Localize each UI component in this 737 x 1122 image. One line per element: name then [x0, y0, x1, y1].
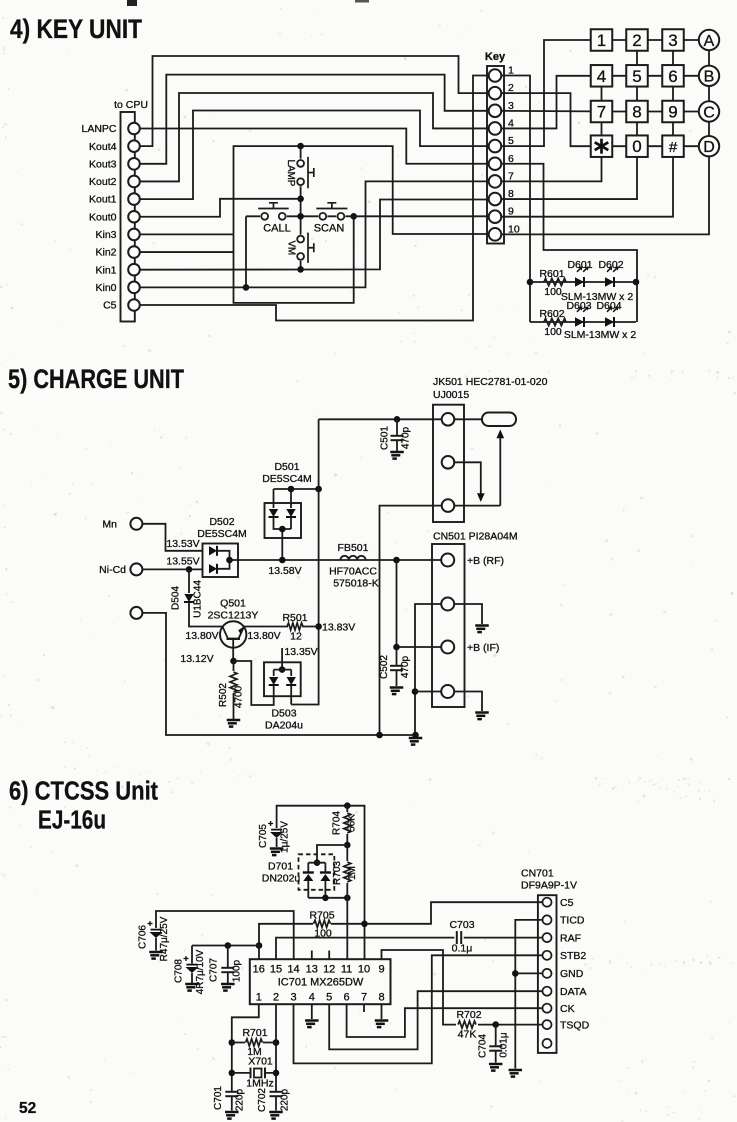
resistor R602 [544, 318, 566, 325]
terminal battery minus [130, 607, 142, 619]
svg-text:13.80V: 13.80V [247, 630, 280, 642]
diode module D503 (box) [264, 662, 301, 696]
svg-text:1: 1 [597, 31, 606, 50]
svg-text:D502: D502 [209, 516, 234, 528]
svg-text:D604: D604 [596, 300, 621, 312]
wire IC pin11 riser [346, 898, 348, 959]
junction C502 top [393, 557, 400, 564]
key button 4 [591, 65, 613, 87]
svg-text:DE5SC4M: DE5SC4M [197, 528, 247, 540]
svg-text:R602: R602 [539, 308, 564, 320]
svg-text:10: 10 [358, 964, 370, 976]
svg-text:GND: GND [560, 968, 584, 980]
diode D603 [575, 317, 584, 326]
svg-text:100: 100 [544, 286, 562, 298]
wire Ni-Cd to D502 [142, 568, 202, 570]
wire Key pin5 to 1 row [501, 40, 590, 146]
junction CALL-Kin0 [243, 284, 250, 291]
pin TICD of CN701 [543, 915, 552, 924]
diode module D502 (box) [203, 544, 239, 578]
wire Kin2 stub [140, 251, 233, 253]
junction R703 bottom [344, 895, 351, 902]
wire CN501 pin4 right ground [454, 692, 482, 712]
wire Kout0 to LAMP-CALL node [140, 199, 300, 217]
ground below C707 [221, 984, 235, 991]
junction LED row1 right [633, 279, 640, 286]
capacitor C704 [495, 1025, 497, 1047]
diode D601 [575, 277, 584, 286]
svg-text:DE5SC4M: DE5SC4M [262, 473, 312, 485]
wire Kout3 to Key pin3 [140, 75, 488, 164]
junction D503 top [279, 666, 286, 673]
svg-text:6: 6 [344, 992, 350, 1004]
svg-text:0.01μ: 0.01μ [499, 1032, 510, 1057]
diode module D501 (box) [265, 503, 302, 538]
wire 13.58V line to CN501 pin1 [230, 559, 442, 561]
svg-text:Kout3: Kout3 [89, 158, 117, 170]
junction C704 tap [492, 1021, 499, 1028]
key button 5 [626, 65, 648, 87]
svg-text:100p: 100p [232, 959, 243, 982]
junction GND row [512, 970, 519, 977]
pin 3 of JK501 [442, 499, 455, 512]
svg-text:Kin3: Kin3 [95, 229, 116, 241]
wire D503 top link [274, 669, 292, 671]
wire Key pin8 to 0 column [501, 157, 637, 199]
wire IC pin15 to RAF with C703 [276, 938, 543, 960]
pin RAF of CN701 [543, 933, 552, 942]
ground below C704 [489, 1064, 503, 1071]
svg-text:4) KEY UNIT: 4) KEY UNIT [10, 14, 142, 44]
wire Kout1 to Key pin5 [140, 111, 488, 200]
svg-text:Kin1: Kin1 [95, 264, 116, 276]
junction X701 right [273, 1070, 280, 1077]
junction D501 to 13.58V line [279, 557, 286, 564]
junction R701 right [273, 1039, 280, 1046]
svg-text:C: C [703, 104, 715, 121]
wire Key pin4 to 4 row [501, 76, 590, 129]
ground IC pin4 [305, 1021, 319, 1028]
svg-text:13.53V: 13.53V [166, 538, 199, 550]
svg-text:UJ0015: UJ0015 [433, 389, 469, 401]
wire CN501 pin2 right ground [454, 604, 482, 624]
svg-text:C705: C705 [258, 824, 269, 848]
key button B [699, 66, 719, 86]
wire button block top rail [234, 146, 489, 234]
switch VM [297, 236, 304, 243]
wire IC pin8 ground [381, 1004, 383, 1019]
svg-text:4R7μ/10V: 4R7μ/10V [195, 949, 206, 994]
svg-text:R47μ/25V: R47μ/25V [159, 916, 170, 961]
svg-text:7: 7 [597, 103, 606, 122]
pin 2 of Key connector [489, 87, 502, 100]
svg-text:13: 13 [306, 964, 318, 976]
wire IC pin4 ground [311, 1004, 313, 1019]
pin 5 of Key connector [489, 140, 502, 153]
ferrite bead FB501 [340, 556, 365, 560]
svg-text:DN202u: DN202u [262, 873, 301, 885]
wire CTCSS top supply line [277, 806, 365, 960]
diode D501b [290, 489, 292, 508]
junction D502 output [226, 557, 233, 564]
wire CN501 pins 2-4 ground link [415, 604, 441, 735]
junction pin3 riser bottom [376, 732, 383, 739]
wire Key pin2 to star row [501, 93, 590, 146]
ground below C708 [185, 984, 199, 991]
DC plug symbol [482, 413, 516, 427]
wire Key pin1 to LED left rail [501, 76, 530, 323]
svg-text:+B (RF): +B (RF) [467, 555, 504, 567]
svg-text:C702: C702 [257, 1088, 268, 1112]
resistor R704 [346, 806, 348, 812]
ground below R502 [227, 720, 241, 727]
svg-text:1μ/25V: 1μ/25V [280, 821, 291, 853]
wire Kin0 to Key pin7 [140, 181, 488, 287]
junction pin16 node [256, 942, 263, 949]
svg-text:LANPC: LANPC [81, 123, 116, 135]
pin Kout3 of CPU connector [128, 158, 140, 170]
wire CALL-SCAN row [246, 215, 489, 217]
resistor R702 [458, 1021, 476, 1028]
stub IC pin12 [328, 951, 330, 960]
wire battery minus to bottom rail [142, 613, 415, 735]
svg-text:R701: R701 [242, 1027, 267, 1039]
svg-text:13.80V: 13.80V [185, 630, 218, 642]
svg-text:2: 2 [273, 992, 279, 1004]
key button 1 [591, 29, 613, 51]
svg-text:Mn: Mn [102, 519, 117, 531]
pin CK of CN701 [543, 1004, 552, 1013]
svg-text:CN501 PI28A04M: CN501 PI28A04M [433, 531, 518, 543]
svg-text:to CPU: to CPU [114, 99, 148, 111]
svg-text:5) CHARGE UNIT: 5) CHARGE UNIT [8, 364, 184, 394]
scan mark top edge [127, 0, 137, 6]
junction center row node [297, 213, 304, 220]
wire +B rail [291, 419, 318, 704]
svg-text:LAMP: LAMP [285, 160, 296, 187]
svg-text:0: 0 [632, 137, 641, 156]
capacitor C707 [227, 946, 229, 968]
wire Mn to D502 [142, 524, 202, 551]
wire C707-C708 line [192, 946, 259, 960]
junction base node 13.12V [230, 658, 237, 665]
ground below C501 [390, 452, 404, 459]
diode D502a [209, 546, 217, 555]
wire D701 bottom rail [308, 897, 347, 899]
wire block left rail lower and bottom U to SCAN right [234, 216, 354, 303]
svg-text:8: 8 [632, 103, 641, 122]
ground CN501 pin4 [475, 713, 489, 720]
svg-text:9: 9 [378, 964, 384, 976]
capacitor C502 [396, 647, 398, 666]
junction pin4 link [412, 688, 419, 695]
svg-text:IC701 MX265DW: IC701 MX265DW [278, 977, 364, 989]
svg-text:4700: 4700 [234, 685, 245, 708]
ground below C701 [225, 1112, 239, 1119]
junction VM-Kin1 [297, 266, 304, 273]
pin GND of CN701 [543, 969, 552, 978]
svg-text:Kout0: Kout0 [89, 211, 117, 223]
wire JK501 pin3 arrow up [454, 434, 500, 506]
pin Kin3 of CPU connector [128, 229, 140, 241]
svg-text:C708: C708 [174, 959, 185, 983]
wire D502 output join [217, 551, 230, 569]
key button 8 [626, 101, 648, 123]
wire Key pin3 to 7 row [501, 110, 590, 113]
wire LANPC to Key pin6 [140, 129, 488, 164]
svg-text:3: 3 [290, 992, 296, 1004]
pin 1 of Key connector [489, 69, 502, 82]
wire 13.35V lead [281, 648, 283, 670]
junction C501 tap [394, 416, 401, 423]
pin 1 of CN501 +B RF [441, 554, 454, 567]
svg-text:FB501: FB501 [338, 542, 369, 554]
svg-text:C701: C701 [213, 1086, 224, 1110]
wire JK501 pin3 to ground rail [380, 506, 442, 735]
wire GND row [515, 972, 542, 974]
svg-text:4: 4 [597, 67, 606, 86]
key button 2 [626, 29, 648, 51]
diode D502b [209, 564, 217, 573]
pin 4 of Key connector [489, 122, 502, 135]
svg-text:R705: R705 [309, 910, 334, 922]
resistor R601 [544, 278, 566, 285]
junction D701 entry [314, 859, 321, 866]
wires keypad row links [612, 39, 699, 41]
svg-text:B: B [704, 69, 715, 86]
junction D501 bottom [279, 526, 286, 533]
diode D701a [307, 863, 309, 872]
junction LED row1 left [527, 279, 534, 286]
svg-text:D501: D501 [274, 461, 299, 473]
wires keypad column links [602, 50, 710, 136]
pin Kout4 of CPU connector [128, 140, 140, 152]
resistor R502 [233, 661, 235, 671]
pin TSQD of CN701 [543, 1020, 552, 1029]
svg-text:575018-K: 575018-K [333, 578, 379, 590]
capacitor C501 [396, 419, 398, 436]
svg-text:4: 4 [309, 992, 315, 1004]
svg-text:47K: 47K [458, 1029, 477, 1041]
svg-text:6: 6 [668, 67, 677, 86]
pin C5 of CN701 [543, 898, 552, 907]
key button 9 [662, 101, 684, 123]
wire Key pin9 to hash column [501, 157, 673, 217]
resistor R501 [287, 623, 303, 630]
junction pin10 supply tap [361, 921, 368, 928]
svg-text:15: 15 [270, 964, 282, 976]
wire IC pin6 to CK [347, 1004, 543, 1037]
wire D501 top link [274, 488, 319, 490]
wire Kin1 to Key pin8 [140, 200, 488, 270]
svg-text:220p: 220p [280, 1088, 291, 1111]
svg-text:13.83V: 13.83V [322, 622, 355, 634]
pin 8 of Key connector [489, 193, 502, 206]
pin Kout2 of CPU connector [128, 176, 140, 188]
svg-text:STB2: STB2 [560, 950, 586, 962]
pin Kin2 of CPU connector [128, 246, 140, 258]
junction D701 bottom [322, 895, 329, 902]
connector CN501 (box) [432, 544, 465, 707]
svg-text:JK501 HEC2781-01-020: JK501 HEC2781-01-020 [433, 376, 548, 388]
junction D504 tap [186, 566, 193, 573]
svg-text:C502: C502 [379, 655, 390, 679]
svg-text:0.1μ: 0.1μ [452, 943, 473, 955]
svg-text:Kout1: Kout1 [89, 194, 117, 206]
wire LAMP leads [300, 146, 302, 213]
ground below bottom rail [409, 738, 423, 745]
wire Kout4 to Key pin2 [140, 56, 488, 146]
switch SCAN [319, 213, 326, 220]
svg-text:C5: C5 [103, 300, 117, 312]
junction SCAN right [350, 213, 357, 220]
pin STB2 of CN701 [543, 951, 552, 960]
wire VM leads [300, 219, 302, 269]
pin Kin0 of CPU connector [128, 282, 140, 294]
capacitor C708 [191, 946, 193, 964]
pin 2 of JK501 [442, 456, 455, 469]
wire Kin3 to block rail [140, 233, 233, 235]
ground CN501 pin2 [475, 626, 489, 633]
diode D604 [605, 317, 614, 326]
svg-text:470p: 470p [400, 655, 411, 678]
svg-text:2SC1213Y: 2SC1213Y [208, 610, 259, 622]
pin LANPC of CPU connector [128, 123, 140, 135]
svg-text:13.58V: 13.58V [268, 565, 301, 577]
capacitor C706 [151, 930, 162, 938]
svg-text:12: 12 [323, 964, 335, 976]
ground below C705 [270, 849, 284, 856]
switch CALL [261, 213, 268, 220]
svg-text:R702: R702 [456, 1009, 481, 1021]
svg-text:HF70ACC: HF70ACC [329, 566, 377, 578]
svg-text:RAF: RAF [560, 932, 581, 944]
diode D503a [273, 670, 275, 676]
svg-text:1MHz: 1MHz [246, 1078, 273, 1090]
wire CN501 pin4 left [415, 691, 441, 693]
wire IC pin1 to R701 X701 C701 [232, 1004, 259, 1092]
svg-text:220p: 220p [235, 1088, 246, 1111]
svg-text:DF9A9P-1V: DF9A9P-1V [521, 880, 577, 892]
wire LED row1 [530, 281, 636, 283]
key button 6 [662, 65, 684, 87]
svg-text:Q501: Q501 [220, 598, 246, 610]
key button 3 [662, 29, 684, 51]
svg-text:C5: C5 [560, 897, 574, 909]
diode D504 [188, 569, 190, 593]
key button A [699, 30, 719, 50]
svg-text:5: 5 [326, 992, 332, 1004]
svg-text:D602: D602 [598, 259, 623, 271]
svg-text:C707: C707 [209, 958, 220, 982]
svg-text:D503: D503 [271, 708, 296, 720]
svg-text:C501: C501 [380, 426, 391, 450]
svg-text:CN701: CN701 [521, 868, 554, 880]
capacitor C705 [271, 830, 282, 838]
key button C [699, 101, 719, 121]
svg-text:6) CTCSS Unit: 6) CTCSS Unit [9, 778, 158, 806]
wire C5 supply line R705 to CN701 [259, 902, 543, 945]
svg-text:+B (IF): +B (IF) [467, 642, 499, 654]
svg-text:CALL: CALL [263, 223, 291, 235]
svg-text:C703: C703 [449, 919, 474, 931]
diode D503b [290, 670, 292, 676]
wire TICD to GND rail [515, 920, 542, 1069]
svg-text:12: 12 [290, 631, 302, 643]
wire Key pin10 to D column [501, 156, 709, 234]
key button star [591, 135, 613, 157]
junction C707 tap [225, 942, 232, 949]
svg-text:Kout4: Kout4 [89, 141, 117, 153]
ground below TICD rail [509, 1070, 523, 1077]
ground below C502 [390, 688, 404, 695]
svg-text:3: 3 [668, 31, 677, 50]
svg-text:1: 1 [256, 992, 262, 1004]
svg-text:CK: CK [560, 1003, 575, 1015]
pin 6 of Key connector [489, 157, 502, 170]
key button 0 [626, 135, 648, 157]
junction bottom rail end [412, 732, 419, 739]
svg-text:14: 14 [287, 964, 299, 976]
ground below C706 [149, 952, 163, 959]
capacitor C702 [270, 1092, 283, 1096]
resistor R705 [314, 920, 331, 927]
pin nc of CN701 [543, 1039, 552, 1048]
svg-text:R501: R501 [282, 612, 307, 624]
junction C502 mid [393, 644, 400, 651]
diode D501a [273, 489, 275, 508]
pin 7 of Key connector [489, 175, 502, 188]
junction D501 top right [288, 486, 295, 493]
key button D [699, 136, 719, 156]
svg-text:DATA: DATA [560, 986, 586, 998]
svg-text:Ni-Cd: Ni-Cd [99, 564, 126, 576]
svg-text:D504: D504 [171, 586, 182, 610]
resistor R703 [346, 845, 348, 861]
svg-text:13.35V: 13.35V [284, 646, 317, 658]
svg-text:SCAN: SCAN [314, 223, 345, 235]
crystal X701 [232, 1072, 276, 1074]
pin 2 of CN501 [441, 598, 454, 611]
pin 9 of Key connector [489, 210, 502, 223]
wire C706 line to IC pin14 [156, 911, 294, 959]
connector to CPU (box) [121, 112, 135, 322]
svg-text:D701: D701 [268, 861, 293, 873]
terminal Ni-Cd [130, 563, 142, 575]
ground IC pin8 [375, 1021, 389, 1028]
wire JK501 pin1 to plug [454, 418, 482, 420]
svg-text:TSQD: TSQD [560, 1019, 590, 1031]
stub IC pin13 [311, 951, 313, 960]
key button 7 [591, 101, 613, 123]
svg-text:#: # [669, 139, 678, 156]
wire IC pin9 to TSQD R702 [382, 950, 543, 1025]
junction Kout0 node [297, 196, 304, 203]
svg-text:100: 100 [544, 326, 562, 338]
svg-text:Kin2: Kin2 [95, 247, 116, 259]
switch LAMP [297, 160, 304, 167]
wire C5 to Key pin1 [140, 76, 488, 321]
pin DATA of CN701 [543, 987, 552, 996]
svg-text:D601: D601 [567, 259, 592, 271]
IC701 (box) [250, 959, 391, 1004]
svg-text:Kout2: Kout2 [89, 176, 117, 188]
resistor R701 [232, 1042, 276, 1044]
pin 10 of Key connector [489, 228, 502, 241]
svg-text:TICD: TICD [560, 915, 585, 927]
junction R704-R703 node [344, 842, 351, 849]
svg-text:8: 8 [378, 992, 384, 1004]
